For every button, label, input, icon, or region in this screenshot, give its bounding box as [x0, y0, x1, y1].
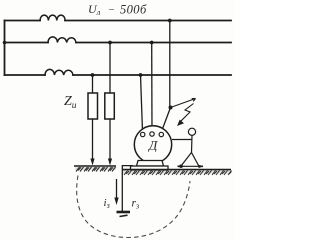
svg-text:500б: 500б	[120, 3, 147, 17]
svg-text:rз: rз	[132, 198, 140, 211]
svg-text:Д: Д	[147, 138, 158, 153]
svg-text:Uл: Uл	[88, 2, 101, 17]
svg-text:–: –	[108, 4, 115, 15]
svg-text:iз: iз	[104, 197, 110, 210]
svg-text:Zи: Zи	[64, 94, 77, 111]
